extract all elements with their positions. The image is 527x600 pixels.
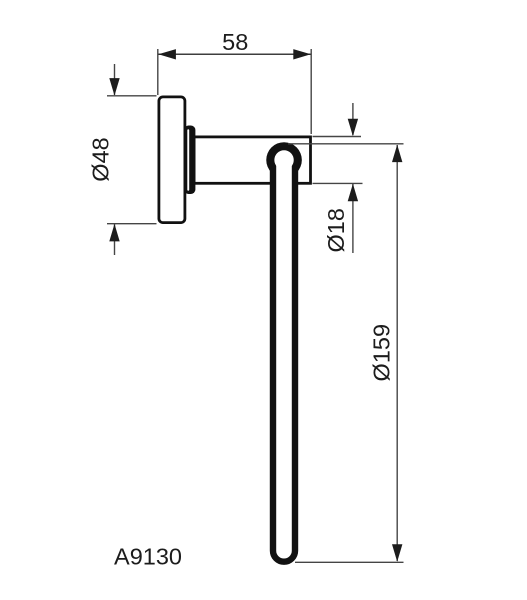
dim O159 dimension line [396, 145, 398, 561]
dim 58 extension line left (from plate top corner) [157, 49, 159, 95]
dim O48 dimension line top segment with down arrow [114, 64, 116, 95]
svg-text:58: 58 [222, 29, 248, 55]
dim O159 arrow down [392, 544, 402, 562]
dim O48 extension line bottom [107, 223, 157, 225]
svg-text:Ø48: Ø48 [88, 137, 114, 181]
dim O159 extension line bottom (ring bottom tangent) [295, 561, 404, 563]
dim 58 arrow right [293, 49, 311, 59]
dim 58 extension line right (from arm end) [310, 49, 312, 134]
dim O18 extension line top (arm top edge extended) [313, 136, 362, 138]
mounting collar (flange, black body) [184, 126, 195, 195]
hinge knuckle (ring pivot, filled disc) [266, 142, 302, 178]
dim O159 arrow up [392, 145, 402, 163]
svg-text:A9130: A9130 [114, 543, 182, 569]
dim O48 dimension line bottom segment with up arrow [114, 224, 116, 255]
svg-text:Ø159: Ø159 [369, 324, 395, 382]
dim 58 dimension line [158, 53, 311, 55]
dim O159 extension line top (ring top tangent) [288, 143, 404, 145]
wall plate (O48 rosette, side view) [159, 97, 185, 223]
hinge knuckle bore (white inner circle) [274, 150, 293, 169]
dim O48 extension line top [107, 95, 157, 97]
towel ring tube (stadium, side view) [273, 159, 295, 562]
mounting collar inner white sliver [187, 129, 189, 190]
arm (O18 horizontal bar) [194, 137, 310, 183]
dim O18 extension line bottom (arm bottom edge extended) [313, 182, 363, 184]
dim O18 dimension line top segment with down arrow [352, 103, 354, 135]
dim O18 dimension line bottom segment with up arrow [352, 184, 354, 253]
dim 58 arrow left [158, 49, 176, 59]
svg-text:Ø18: Ø18 [323, 208, 349, 252]
